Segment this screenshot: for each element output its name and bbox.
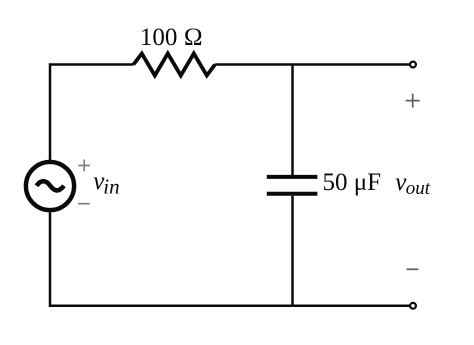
wire top-right segment — [215, 63, 410, 66]
wire top-left segment — [50, 65, 134, 161]
voltage source V1 circle — [26, 162, 74, 210]
output minus sign — [407, 268, 419, 270]
output plus sign — [406, 94, 420, 108]
terminal top-right — [410, 62, 416, 68]
wire left vertical lower — [50, 212, 410, 306]
resistor R1 100 Ohm — [134, 54, 216, 76]
voltage source sine symbol — [37, 181, 64, 190]
wire capacitor branch lower — [291, 196, 294, 306]
terminal bottom-right — [410, 303, 416, 309]
wire capacitor branch upper — [291, 65, 294, 176]
source plus sign — [78, 160, 90, 172]
capacitor C1 top plate — [267, 175, 318, 179]
source minus sign — [78, 203, 90, 205]
svg-text:50 μF: 50 μF — [323, 169, 382, 196]
svg-text:in: in — [103, 175, 119, 199]
capacitor C1 bottom plate — [267, 192, 318, 196]
svg-text:100 Ω: 100 Ω — [140, 24, 203, 51]
svg-text:out: out — [406, 178, 431, 199]
